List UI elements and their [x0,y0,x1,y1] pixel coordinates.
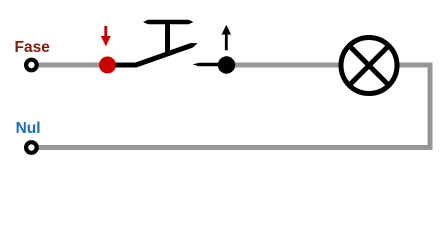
svg-text:Nul: Nul [16,120,41,137]
wire: lamp to right corner [398,63,433,68]
lamp L1 (circle with X) [341,38,397,94]
node: switch pole (red dot) [99,57,116,74]
red arrow (down) over pole [101,26,111,46]
terminal: Nul (open circle) [26,142,37,153]
switch actuator T-bar [143,20,194,25]
black arrow (up) over contact [222,25,232,50]
fixed contact stub [193,63,229,66]
switch lever (movable blade) [108,43,198,65]
wire: switch contact to lamp [232,63,340,68]
wire: bottom return to Nul terminal [38,145,433,150]
wire: right vertical segment [428,63,433,151]
svg-text:Fase: Fase [15,39,51,56]
wire: Fase terminal to switch pole [37,63,104,68]
switch actuator stem [165,22,170,56]
label Nul [16,120,41,137]
terminal: Fase (open circle) [26,60,37,71]
label Fase [15,39,51,56]
node: fixed contact (black dot) [218,56,235,73]
